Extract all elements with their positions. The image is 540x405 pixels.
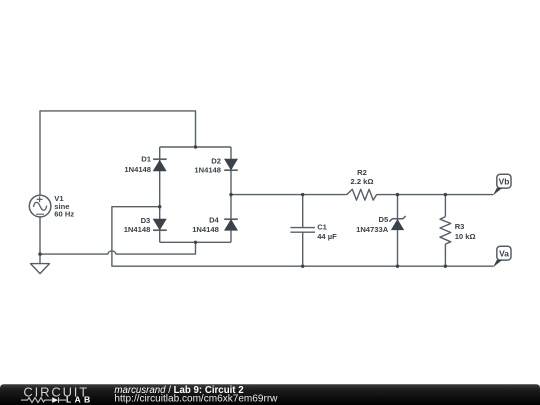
- svg-text:44 µF: 44 µF: [317, 232, 337, 241]
- svg-text:Vb: Vb: [499, 177, 510, 187]
- svg-text:D3: D3: [141, 216, 151, 225]
- svg-text:1N4733A: 1N4733A: [356, 225, 389, 234]
- svg-text:C1: C1: [317, 222, 327, 231]
- svg-text:10 kΩ: 10 kΩ: [455, 232, 476, 241]
- svg-text:R2: R2: [357, 168, 367, 177]
- svg-text:LAB: LAB: [66, 395, 94, 405]
- svg-text:60 Hz: 60 Hz: [54, 210, 74, 219]
- svg-text:1N4148: 1N4148: [192, 225, 219, 234]
- svg-text:D1: D1: [141, 155, 151, 164]
- svg-text:2.2 kΩ: 2.2 kΩ: [351, 177, 374, 186]
- svg-text:D5: D5: [378, 215, 388, 224]
- svg-text:D2: D2: [211, 157, 221, 166]
- svg-text:R3: R3: [455, 222, 465, 231]
- svg-text:Va: Va: [499, 249, 509, 259]
- svg-text:D4: D4: [209, 215, 219, 224]
- svg-text:http://circuitlab.com/cm6xk7em: http://circuitlab.com/cm6xk7em69rrw: [114, 394, 278, 405]
- svg-text:1N4148: 1N4148: [194, 166, 221, 175]
- svg-text:1N4148: 1N4148: [124, 165, 151, 174]
- svg-text:1N4148: 1N4148: [124, 225, 151, 234]
